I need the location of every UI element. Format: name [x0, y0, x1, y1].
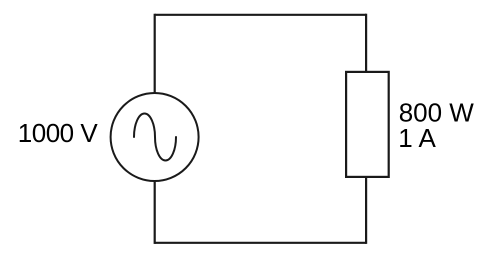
svg-text:1000 V: 1000 V [18, 118, 99, 148]
wire top horizontal [155, 14, 366, 16]
wire left vertical lower (AC source bottom to bottom rail) [154, 181, 156, 244]
wire bottom horizontal [155, 242, 366, 244]
wire right vertical upper (top rail to load top) [365, 14, 367, 72]
AC source sine symbol [134, 114, 176, 161]
AC source V1 circle [111, 93, 199, 181]
load resistor R1 (800 W, 1 A) body [346, 72, 389, 177]
wire right vertical lower (load bottom to bottom rail) [365, 177, 367, 244]
svg-text:1 A: 1 A [398, 123, 436, 153]
wire left vertical upper (top rail to AC source top) [154, 14, 156, 94]
